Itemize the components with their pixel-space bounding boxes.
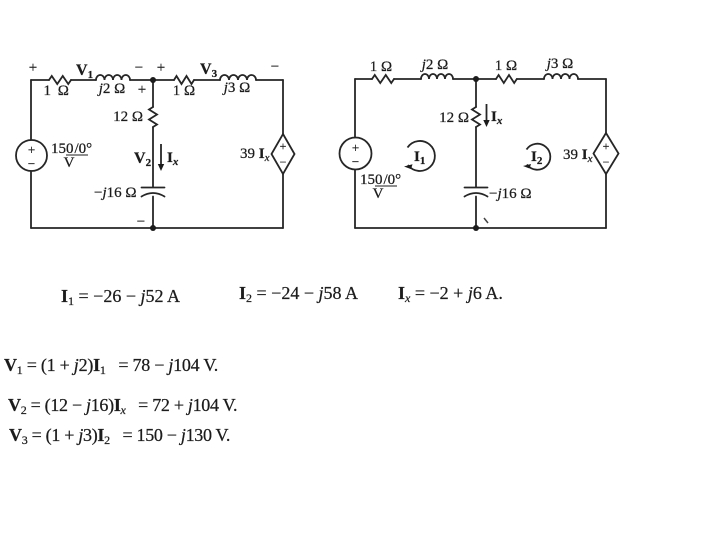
svg-text:I1 = −26 − j52 A: I1 = −26 − j52 A (61, 286, 180, 308)
svg-text:V3: V3 (200, 61, 218, 80)
svg-text:−: − (137, 214, 145, 230)
wire: node A to R2 (153, 79, 174, 81)
resistor R 1ohm (left circuit, right) (174, 76, 194, 84)
svg-text:+: + (28, 142, 35, 157)
svg-text:−: − (271, 59, 279, 75)
voltage source 150/0 V (right circuit) (340, 138, 372, 170)
wire: R4 to L4 (517, 78, 544, 80)
label 150/0 V (right circuit) (360, 172, 401, 202)
wire: L1 to node A (130, 79, 153, 81)
wire: left circuit top-left corner to R1 (31, 79, 49, 81)
wire: right side top to diamond (282, 80, 284, 134)
svg-text:−: − (135, 60, 143, 76)
wire: bottom of left circuit (31, 227, 283, 229)
svg-text:Ix: Ix (491, 109, 503, 127)
wire: L4 to top-right corner (578, 78, 606, 80)
node C dot (right circuit top) (473, 76, 479, 82)
svg-text:j3 Ω: j3 Ω (545, 56, 574, 72)
node B dot (left circuit bottom) (150, 225, 156, 231)
svg-text:+: + (157, 60, 165, 76)
resistor R 1ohm (right circuit, right) (496, 75, 517, 83)
current arrow Ix (right circuit) (483, 104, 489, 127)
inductor j3ohm (right circuit) (544, 74, 578, 79)
wire: right circuit left side down to source (354, 79, 356, 138)
wire: capacitor to bottom node (right circuit) (475, 197, 477, 229)
inductor j3ohm (left circuit) (220, 75, 256, 80)
svg-text:V2: V2 (134, 150, 152, 169)
tick mark near bottom node (right circuit) (484, 218, 488, 223)
wire: right side top to diamond (right circuit) (605, 79, 607, 133)
svg-text:39 Ix: 39 Ix (240, 146, 270, 164)
svg-text:V1: V1 (76, 62, 93, 81)
svg-text:12 Ω: 12 Ω (439, 110, 469, 126)
svg-text:I1: I1 (414, 149, 425, 167)
dependent source 39Ix (right circuit, diamond) (594, 133, 619, 174)
wire: diamond bottom to bottom-right corner (282, 174, 284, 228)
label 150/0 V (left circuit) (51, 141, 92, 171)
wire: node C to R4 (476, 78, 496, 80)
svg-text:+: + (29, 60, 37, 76)
wire: right circuit top-left corner to R3 (355, 78, 372, 80)
svg-text:Ix: Ix (167, 150, 179, 168)
svg-text:j2 Ω: j2 Ω (97, 81, 126, 97)
svg-text:−: − (352, 154, 359, 169)
svg-text:V: V (373, 186, 384, 202)
svg-text:+: + (280, 139, 287, 153)
svg-text:1 Ω: 1 Ω (370, 59, 392, 75)
svg-text:V2 = (12 − j16)Ix = 72 + j10: V2 = (12 − j16)Ix = 72 + j104 V. (8, 395, 237, 417)
svg-text:−j16 Ω: −j16 Ω (94, 185, 137, 201)
current arrow Ix (left circuit) (158, 144, 164, 171)
wire: bottom of right circuit (355, 227, 606, 229)
wire: left side down to source (30, 80, 32, 140)
wire: node A down to 12ohm resistor (152, 80, 154, 107)
resistor 12ohm (right circuit, vertical) (472, 107, 480, 127)
voltage source 150/0 V (left circuit) (16, 140, 47, 171)
capacitor -j16ohm (right circuit) (465, 188, 488, 197)
wire: diamond bottom to bottom-right corner (right circuit) (605, 174, 607, 228)
wire: R2 to L2 (194, 79, 220, 81)
wire: node C down to 12ohm resistor (475, 79, 477, 107)
svg-text:j2 Ω: j2 Ω (420, 57, 449, 73)
wire: capacitor to bottom node (152, 197, 154, 229)
wire: 12ohm to capacitor (152, 127, 154, 187)
dependent source 39Ix (left circuit, diamond) (272, 134, 295, 174)
resistor 12ohm (left circuit, vertical) (149, 107, 157, 127)
svg-text:+: + (603, 139, 610, 153)
wire: source bottom to bottom-left corner (right circuit) (354, 170, 356, 229)
capacitor -j16ohm (left circuit) (142, 188, 165, 197)
svg-text:1 Ω: 1 Ω (495, 58, 517, 74)
inductor j2ohm (right circuit) (421, 74, 453, 79)
inductor j2ohm (left circuit) (96, 75, 130, 80)
svg-text:+: + (352, 140, 359, 155)
svg-text:I2: I2 (531, 149, 543, 167)
svg-text:Ix = −2 + j6 A.: Ix = −2 + j6 A. (398, 283, 503, 305)
svg-text:39 Ix: 39 Ix (563, 147, 593, 165)
svg-text:−j16 Ω: −j16 Ω (489, 186, 532, 202)
wire: source bottom to bottom-left corner (30, 171, 32, 228)
resistor R 1ohm (left circuit, left) (49, 76, 71, 84)
svg-text:−: − (603, 155, 610, 169)
svg-text:−: − (28, 156, 35, 171)
mesh current arrow I2 (523, 144, 550, 170)
svg-text:−: − (280, 155, 287, 169)
node A dot (left circuit) (150, 77, 156, 83)
svg-text:1 Ω: 1 Ω (44, 83, 71, 99)
svg-text:I2 = −24 − j58 A: I2 = −24 − j58 A (239, 283, 358, 305)
mesh current arrow I1 (404, 141, 435, 171)
svg-text:+: + (138, 82, 146, 98)
resistor R 1ohm (right circuit, left) (372, 75, 394, 83)
svg-text:V: V (64, 155, 75, 171)
wire: R3 to L3 (394, 78, 421, 80)
node D dot (right circuit bottom) (473, 225, 479, 231)
wire: L2 to top-right corner (256, 79, 283, 81)
svg-text:V3 = (1 + j3)I2 = 150 − j130: V3 = (1 + j3)I2 = 150 − j130 V. (9, 425, 230, 447)
svg-text:1 Ω: 1 Ω (173, 83, 195, 99)
svg-text:12 Ω: 12 Ω (113, 109, 143, 125)
wire: L3 to node C (453, 78, 476, 80)
wire: R1 to L1 (71, 79, 96, 81)
svg-text:V1 = (1 + j2)I1 = 78 − j104: V1 = (1 + j2)I1 = 78 − j104 V. (4, 355, 218, 377)
wire: 12ohm to capacitor (right circuit) (475, 127, 477, 187)
svg-text:j3 Ω: j3 Ω (222, 80, 251, 96)
